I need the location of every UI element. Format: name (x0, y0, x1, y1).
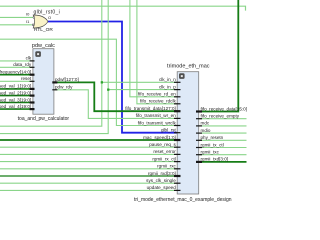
wire net glbl_rst blue (48, 22, 177, 133)
pin stub mac_speed (174, 139, 181, 141)
wire bus pdw_calc input sed_val_1 (0, 88, 33, 90)
svg-text:O: O (48, 15, 51, 20)
wire pause_req_s (0, 146, 177, 148)
pin stub phy_resetn (196, 139, 202, 141)
svg-text:glbl_rst0_i: glbl_rst0_i (34, 9, 61, 15)
svg-text:fifo_receive_rdclk: fifo_receive_rdclk (140, 99, 176, 104)
pin stub pdw_rdy (52, 89, 57, 91)
wire bus rgmii_rxd (0, 175, 177, 177)
pin stub data_rdy (30, 66, 35, 68)
svg-text:pdw_rdy: pdw_rdy (55, 85, 73, 90)
wire bus rgmii_txd (199, 161, 247, 163)
pin stub fifo_receive_data (196, 110, 202, 112)
wire net v4 fifo_receive_rd_en (130, 0, 177, 97)
wire rgmii_tx_ctl (199, 147, 247, 149)
svg-text:rgmii_rx_ctl: rgmii_rx_ctl (152, 156, 175, 161)
wire bus pdw_calc input sed_val_3 (0, 102, 33, 104)
pin stub pause_req_s (174, 146, 181, 148)
wire bus fifo_receive_data to top (199, 0, 239, 112)
pin stub reset_error (174, 153, 181, 155)
svg-text:clk_in_p: clk_in_p (159, 84, 176, 89)
svg-text:mac_speed[1:0]: mac_speed[1:0] (143, 135, 176, 140)
svg-text:trimode_eth_mac: trimode_eth_mac (167, 64, 210, 70)
pin stub mdio (196, 132, 202, 134)
wire net v5 fifo_receive_rdclk (137, 0, 177, 104)
svg-text:clk_in_n: clk_in_n (159, 77, 176, 82)
svg-text:mdc: mdc (201, 121, 210, 126)
pin stub frequency (30, 74, 35, 76)
svg-text:tri_mode_ethernet_mac_0_exampl: tri_mode_ethernet_mac_0_example_design (134, 197, 232, 203)
pin stub clk_in_n (174, 81, 181, 83)
svg-text:sed_val_1[19:0]: sed_val_1[19:0] (0, 84, 31, 89)
svg-text:sed_val_4[19:0]: sed_val_4[19:0] (0, 104, 31, 109)
wire bus pdw_calc input frequency (0, 74, 33, 76)
svg-text:update_speed: update_speed (147, 185, 177, 190)
wire fifo_receive_empty (199, 118, 247, 120)
pin stub fifo_transmit_wr_en (174, 117, 181, 119)
pin circle I0 (33, 17, 35, 19)
svg-text:pause_req_s: pause_req_s (149, 142, 176, 147)
icon pdw_calc (35, 51, 41, 57)
wire pdw_calc input data_rdy (0, 66, 33, 68)
pin stub clk_in_p (174, 89, 181, 91)
pin stub fifo_transmit_wrclk (174, 125, 181, 127)
svg-text:fifo_transmit_wrclk: fifo_transmit_wrclk (138, 120, 177, 125)
svg-text:fifo_receive_rd_en: fifo_receive_rd_en (138, 92, 176, 97)
svg-text:sed_val_2[19:0]: sed_val_2[19:0] (0, 90, 31, 95)
svg-text:RTL_OR: RTL_OR (34, 27, 53, 33)
svg-text:data_rdy: data_rdy (13, 62, 32, 67)
wire rgmii_txc (199, 154, 247, 156)
pin stub glbl_rst (174, 132, 181, 134)
pin stub reset (30, 80, 35, 82)
wire bus pdw_calc input sed_val_2 (0, 95, 33, 97)
pin stub sed_val_2 (30, 94, 35, 96)
wire rgmii_rxc (0, 168, 177, 170)
svg-text:glbl_rst: glbl_rst (161, 128, 177, 133)
pin stub fifo_receive_rdclk (174, 103, 181, 105)
pin stub rgmii_rx_ctl (174, 161, 181, 163)
pin stub mdc (196, 125, 202, 127)
junction clk_in_p (107, 89, 109, 91)
pin stub sys_clk_single (174, 182, 181, 184)
pin stub rgmii_rxd (174, 175, 181, 177)
wire pdw_rdy to fifo_transmit_wr_en (54, 90, 177, 119)
svg-text:fifo_transmit_data[127:0]: fifo_transmit_data[127:0] (125, 106, 176, 111)
svg-text:phy_resetn: phy_resetn (201, 135, 224, 140)
pin stub sed_val_3 (30, 101, 35, 103)
wire pdw_calc input clk (0, 60, 33, 62)
wire pdw_calc input reset (0, 80, 33, 82)
svg-text:rgmii_txd[3:0]: rgmii_txd[3:0] (201, 157, 229, 162)
wire OR gate input I1 (0, 24, 32, 26)
pin stub rgmii_rxc (174, 168, 181, 170)
wire bus pdw_calc input sed_val_4 (0, 108, 33, 110)
svg-text:mdio: mdio (201, 128, 211, 133)
svg-text:rgmii_rxd[3:0]: rgmii_rxd[3:0] (148, 171, 176, 176)
svg-text:pdw_calc: pdw_calc (32, 43, 55, 49)
wire sys_clk_single (0, 182, 177, 184)
pin stub update_speed (174, 189, 181, 191)
pin stub fifo_transmit_data (174, 110, 181, 112)
pin stub rgmii_txc (196, 154, 202, 156)
pin stub sed_val_1 (30, 88, 35, 90)
pin circle I1 (32, 24, 34, 26)
wire update_speed (0, 189, 177, 191)
pin stub rgmii_tx_ctl (196, 147, 202, 149)
wire net v1 clk_in_n (0, 0, 102, 126)
block trimode_eth_mac (177, 72, 199, 194)
pin stub clk (30, 60, 35, 62)
svg-text:sys_clk_single: sys_clk_single (146, 178, 176, 183)
wire mdio (199, 132, 247, 134)
svg-text:fifo_transmit_wr_en: fifo_transmit_wr_en (136, 113, 177, 118)
pin stub fifo_receive_empty (196, 118, 202, 120)
junction clk_in_n (101, 81, 103, 83)
svg-text:reset: reset (21, 76, 32, 81)
pin stub pdwf (52, 81, 57, 83)
wire mdc (199, 125, 247, 127)
block pdw_calc (33, 49, 54, 115)
wire OR gate input I0 (0, 16, 33, 18)
svg-text:reset_error: reset_error (153, 149, 176, 154)
wire bus mac_speed (0, 139, 177, 141)
icon trimode_eth_mac (179, 73, 185, 79)
svg-text:sed_val_3[19:0]: sed_val_3[19:0] (0, 97, 31, 102)
svg-text:frequency[14:0]: frequency[14:0] (0, 70, 31, 75)
pin stub rgmii_txd (196, 161, 202, 163)
pin stub fifo_receive_rd_en (174, 96, 181, 98)
wire phy_resetn (199, 139, 247, 141)
wire net top horizontal y6 (0, 6, 246, 10)
svg-text:rgmii_txc: rgmii_txc (201, 150, 220, 155)
wire net v2 clk_in_p (0, 0, 108, 134)
wire rgmii_rx_ctl (0, 161, 177, 163)
svg-text:rgmii_tx_ctl: rgmii_tx_ctl (201, 142, 224, 147)
svg-text:toa_and_pw_calculator: toa_and_pw_calculator (18, 116, 70, 122)
svg-text:clk: clk (26, 56, 32, 61)
svg-text:rgmii_rxc: rgmii_rxc (157, 164, 176, 169)
op gate U glbl_rst0_i RTL_OR (33, 15, 48, 28)
svg-text:fifo_receive_data[15:0]: fifo_receive_data[15:0] (201, 106, 247, 111)
svg-text:fifo_receive_empty: fifo_receive_empty (201, 114, 240, 119)
wire bus pdwf to fifo_transmit_data (54, 82, 177, 111)
wire net clk y39 to fifo_transmit_wrclk (0, 39, 177, 125)
pin stub sed_val_4 (30, 108, 35, 110)
wire reset_error (0, 153, 177, 155)
svg-text:pdwf[127:0]: pdwf[127:0] (55, 77, 79, 82)
